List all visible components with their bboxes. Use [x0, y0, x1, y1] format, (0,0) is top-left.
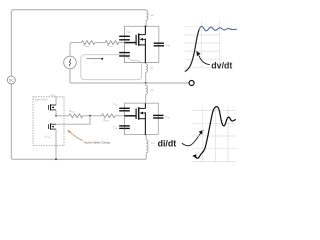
junction node source / bottom rail (top cell) [145, 62, 147, 64]
waveform dv/dt ringing (blue) [199, 26, 237, 30]
resistor RG,int (bottom) [102, 114, 116, 123]
wire clamp connection [56, 116, 90, 124]
svg-text:Active Miller Clamp: Active Miller Clamp [83, 140, 110, 144]
resistor RG,off (top left) [81, 41, 95, 48]
resistor RG,int (top right) [105, 41, 119, 48]
svg-text:di/dt: di/dt [158, 139, 177, 149]
top cell outline box [125, 26, 159, 62]
voltage source DC [7, 76, 15, 84]
svg-text:G,int: G,int [105, 120, 109, 123]
wire gate loop top (current source to resistors) [70, 43, 81, 57]
inductor Ls (source, bottom) [146, 134, 155, 159]
inductor Ls (between cells, upper) [146, 63, 154, 84]
junction node VEE bottom rail [55, 158, 57, 160]
junction node mid rail [145, 82, 147, 84]
loop current arrow iG [87, 58, 104, 65]
mosfet M2 (bottom, DUT) [125, 103, 147, 134]
wire driver VEE rail down to bottom rail [55, 129, 57, 159]
junction node clamp tap [89, 115, 91, 117]
svg-text:Lσ: Lσ [150, 66, 153, 70]
wire RG,on to junction [83, 115, 102, 117]
wire RG,int to gate node [115, 115, 125, 117]
label +VCC [50, 94, 56, 98]
capacitor Cds (top cell) [154, 43, 171, 47]
svg-text:dv/dt: dv/dt [211, 61, 232, 71]
bottom cell outline box [125, 103, 159, 134]
svg-text:Gate Driver: Gate Driver [34, 98, 47, 102]
grid dv/dt plot [185, 21, 222, 68]
capacitor Cgd (bottom cell) [113, 103, 130, 116]
wire left from DC- down to bottom rail [11, 84, 146, 160]
svg-text:Lσ: Lσ [151, 141, 154, 145]
arrowhead at waveform start [192, 154, 196, 157]
capacitor Cgs (top cell) [119, 43, 131, 63]
current source [64, 56, 77, 69]
mosfet driver clamp (active miller clamp) [49, 123, 57, 129]
wire driver output [56, 110, 69, 116]
svg-text:G,off: G,off [85, 46, 89, 48]
label -VEE [45, 135, 51, 139]
svg-text:Lσ: Lσ [150, 88, 153, 92]
svg-text:G,on: G,on [71, 111, 75, 113]
capacitor Cgd (top cell) [119, 26, 131, 42]
junction node drain top [145, 25, 147, 27]
junction node bottom cell source rail [145, 134, 147, 136]
mosfet M1 (top, high side) [125, 26, 147, 62]
wire top rail from DC+ to inductor [11, 10, 146, 77]
wire resistor to gate node [118, 42, 125, 44]
waveform di/dt (black) [194, 107, 236, 159]
mosfet driver pull-up [49, 104, 57, 110]
wire driver VCC rail [55, 97, 57, 106]
wire between top resistors [95, 42, 105, 44]
terminal node (open circle) [189, 81, 194, 86]
capacitor Cds (bottom cell) [153, 115, 170, 119]
svg-text:Lσ: Lσ [151, 13, 154, 17]
svg-text:DC: DC [9, 79, 14, 83]
inductor Ls (between cells, lower) [146, 83, 154, 103]
inductor Ls (drain, top) [146, 10, 154, 27]
annotation arrow dv/dt [199, 56, 210, 65]
svg-text:G,int: G,int [109, 45, 113, 48]
capacitor Cgs (bottom cell) [113, 116, 130, 135]
annotation arrow active miller clamp [70, 132, 83, 141]
grid di/dt plot [192, 106, 236, 163]
resistor RG,on [69, 111, 83, 118]
wire current source to mid rail [70, 69, 189, 83]
gate driver dashed box [33, 97, 64, 146]
annotation arrow di/dt [182, 133, 201, 145]
gate loop highlight (rounded outline) [81, 55, 142, 80]
waveform dv/dt rise (black) [185, 29, 199, 71]
